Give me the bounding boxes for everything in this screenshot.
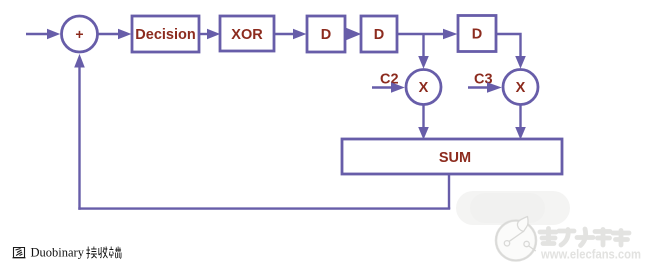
arrow input bbox=[47, 29, 60, 39]
caption character tu bbox=[13, 248, 26, 258]
block Decision bbox=[132, 16, 199, 52]
svg-text:+: + bbox=[75, 26, 83, 42]
wire D3 to X2 bbox=[496, 34, 521, 57]
caption chinese suffix bbox=[86, 247, 121, 259]
arrow X2 into SUM bbox=[515, 127, 526, 140]
svg-text:XOR: XOR bbox=[231, 27, 263, 43]
arrow to D1 bbox=[293, 29, 306, 39]
wire X2 to SUM bbox=[519, 105, 521, 129]
svg-text:D: D bbox=[321, 27, 331, 43]
arrow into X2 bbox=[515, 56, 526, 69]
arrow to D3 bbox=[443, 29, 457, 39]
wire C3 input bbox=[468, 86, 488, 88]
arrow to XOR bbox=[207, 29, 220, 39]
caption character duan bbox=[109, 247, 121, 259]
watermark blob bbox=[456, 191, 570, 225]
svg-text:www.elecfans.com: www.elecfans.com bbox=[540, 248, 641, 262]
arrow X1 into SUM bbox=[418, 127, 429, 140]
arrow into X1 bbox=[418, 56, 429, 69]
wire Decision to XOR bbox=[199, 33, 208, 35]
svg-text:SUM: SUM bbox=[439, 150, 471, 166]
wire feedback horizontal bbox=[78, 207, 450, 209]
svg-text:D: D bbox=[472, 27, 482, 43]
svg-text:Duobinary: Duobinary bbox=[31, 246, 85, 260]
wire X1 to SUM bbox=[422, 105, 424, 129]
svg-text:X: X bbox=[516, 80, 526, 96]
svg-text:X: X bbox=[419, 80, 429, 96]
block D3 bbox=[458, 16, 496, 52]
adder U1 bbox=[62, 16, 98, 52]
wire input bbox=[26, 33, 48, 35]
caption character shou bbox=[99, 247, 108, 259]
arrow C3 into X2 bbox=[487, 82, 502, 92]
wire SUM output down bbox=[448, 174, 450, 209]
arrow C2 into X1 bbox=[391, 82, 405, 92]
arrow to Decision bbox=[118, 29, 131, 39]
wire D2 to D3 bbox=[397, 33, 444, 35]
block D2 bbox=[361, 16, 397, 52]
block SUM bbox=[342, 139, 562, 174]
watermark url text bbox=[540, 248, 641, 262]
multiplier X2 bbox=[503, 70, 538, 105]
arrow D1 to D2 bbox=[346, 28, 361, 40]
wire branch down to X1 bbox=[422, 34, 424, 57]
block D1 bbox=[307, 16, 345, 52]
svg-text:Decision: Decision bbox=[135, 27, 195, 43]
caption character jie bbox=[86, 247, 97, 259]
svg-text:D: D bbox=[374, 27, 384, 43]
wire XOR to D1 bbox=[274, 33, 294, 35]
wire adder to Decision bbox=[98, 33, 119, 35]
watermark logo circle bbox=[496, 217, 536, 261]
wire feedback vertical bbox=[78, 67, 80, 210]
wire C2 input bbox=[372, 86, 392, 88]
watermark chinese brand strokes bbox=[540, 229, 629, 246]
arrow feedback into adder bbox=[74, 54, 85, 68]
block XOR bbox=[220, 16, 274, 51]
multiplier X1 bbox=[406, 70, 441, 105]
